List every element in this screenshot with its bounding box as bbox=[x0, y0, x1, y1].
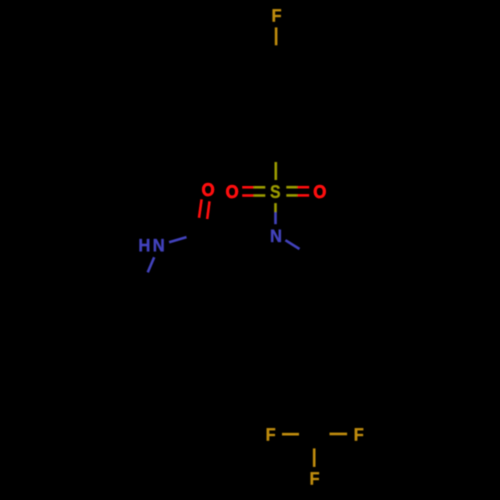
bond C=O3 left line red half bbox=[199, 199, 202, 218]
atom O3 (lactam carbonyl) bbox=[202, 183, 214, 196]
bond S=O2 lower line red half bbox=[297, 194, 309, 197]
bond N1-CH2 blue half bbox=[285, 240, 299, 249]
bond C-F4 gold half bbox=[313, 448, 316, 467]
bond S=O1 upper line red half bbox=[242, 186, 254, 189]
bond S=O2 lower line olive half bbox=[286, 194, 297, 197]
bond C-F2 gold half bbox=[282, 433, 299, 436]
bond S=O2 upper line olive half bbox=[286, 186, 297, 189]
atom F4 (CF3 bottom) bbox=[311, 472, 319, 484]
bond S=O1 upper line olive half bbox=[254, 186, 266, 189]
bond C=O3 right line red half bbox=[207, 201, 209, 219]
bond F1-C(aryl) gold half bbox=[275, 27, 278, 45]
atom N2 hydrogen label (lactam HN) bbox=[140, 239, 150, 251]
bond N2-C(=O) blue half bbox=[169, 237, 186, 242]
atom F1 (para-fluoro, top) bbox=[273, 9, 281, 21]
bond N2-CH2 blue half bbox=[148, 257, 155, 272]
atom N1 (sulfonamide) bbox=[271, 230, 281, 242]
atom F3 (CF3 right) bbox=[355, 428, 363, 440]
atom O1 (sulfonyl left) bbox=[226, 185, 238, 198]
bond S-N olive half bbox=[274, 203, 277, 212]
bond S=O2 upper line red half bbox=[297, 186, 309, 189]
bond C-F3 gold half bbox=[330, 433, 348, 436]
atom O2 (sulfonyl right) bbox=[314, 185, 326, 198]
bond S=O1 lower line olive half bbox=[254, 194, 266, 197]
bond S-N blue half bbox=[274, 212, 277, 224]
atom F2 (CF3 left) bbox=[267, 428, 275, 440]
atom S1 (sulfonyl) bbox=[271, 185, 280, 198]
bond S=O1 lower line red half bbox=[242, 194, 254, 197]
atom N2 nitrogen label (lactam HN) bbox=[154, 239, 164, 251]
bond C(aryl)-S olive half bbox=[274, 162, 277, 180]
